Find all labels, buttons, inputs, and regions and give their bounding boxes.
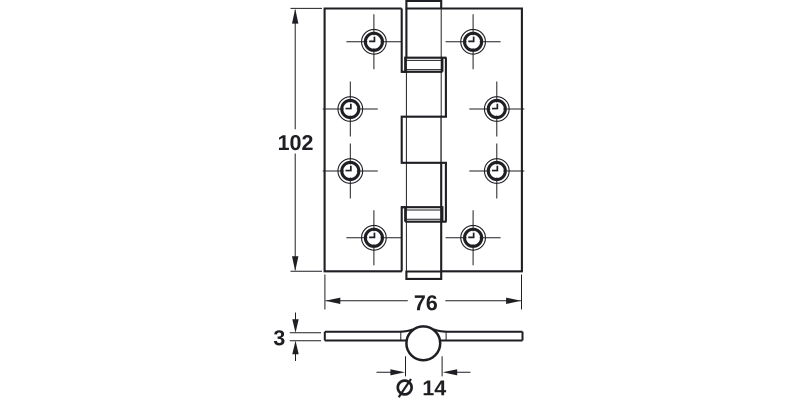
knuckle bottom cap xyxy=(406,272,441,279)
barrel right edge thin xyxy=(440,9,442,163)
dimension 102 extension lines xyxy=(291,8,323,271)
dimension diameter 14 arrow left-pointing xyxy=(443,369,458,375)
knuckle bottom cap base line xyxy=(405,270,442,272)
dimension 76 line xyxy=(326,300,521,302)
knuckle top cap base line xyxy=(405,7,442,9)
left leaf knuckle-side edge lower segment xyxy=(402,207,408,271)
diameter symbol circle xyxy=(398,381,412,395)
side view knuckle circle xyxy=(406,326,440,360)
side view knuckle edge ticks xyxy=(401,332,446,340)
right leaf outline xyxy=(441,9,522,272)
screw hole C xyxy=(323,144,378,199)
dimension 76 text xyxy=(415,295,437,310)
side view leaf bar top line xyxy=(325,329,413,331)
knuckle top cap xyxy=(406,1,441,9)
dimension 14 text xyxy=(424,381,446,396)
right leaf knuckle-side edge upper segment xyxy=(445,58,447,117)
dimension 102 text xyxy=(279,135,313,150)
middle knuckle box right edge xyxy=(440,117,442,163)
screw hole G xyxy=(469,144,524,199)
dimension 3 extension lines xyxy=(290,333,321,341)
screw hole E xyxy=(446,14,501,69)
dimension 76 arrow right xyxy=(506,298,521,304)
dimension diameter 14 arrow shafts xyxy=(377,371,471,373)
barrel left edge thick upper xyxy=(405,9,407,58)
dimension 3 text xyxy=(274,330,285,345)
dimension 102 arrow up xyxy=(292,9,298,24)
right leaf knuckle-side edge lower segment xyxy=(445,163,447,222)
dimension diameter 14 extension lines xyxy=(406,356,443,376)
dimension 76 extension lines xyxy=(325,275,522,310)
dimension 3 arrow down xyxy=(292,319,298,333)
dimension 76 arrow left xyxy=(325,298,340,304)
screw hole B xyxy=(323,82,378,137)
side view leaf bar bottom line xyxy=(325,340,523,342)
bearing collar 2 box xyxy=(402,207,447,222)
screw hole H xyxy=(446,210,501,265)
screw hole A xyxy=(346,14,401,69)
side view leaf bar top line right xyxy=(434,329,523,331)
dimension 3 arrow up xyxy=(292,341,298,355)
middle knuckle box xyxy=(402,117,447,163)
dimension 3 arrow shafts xyxy=(295,313,297,362)
barrel left edge thin xyxy=(405,58,407,272)
screw hole D xyxy=(346,210,401,265)
dimension diameter 14 arrow right-pointing xyxy=(390,369,405,375)
side view bar left end cap xyxy=(324,332,326,341)
dimension 102 arrow down xyxy=(292,256,298,271)
bearing collar 1 box xyxy=(402,58,447,72)
dimension 102 line xyxy=(294,10,296,270)
side view bar right end cap xyxy=(522,332,524,341)
diameter symbol slash xyxy=(399,379,411,397)
bearing collar 1 inner lines xyxy=(406,60,442,69)
bearing collar 2 inner lines xyxy=(406,210,442,219)
left leaf outline xyxy=(325,9,402,272)
screw hole F xyxy=(469,82,524,137)
barrel right edge thick lower xyxy=(440,163,442,271)
left leaf knuckle-side edge upper segment xyxy=(402,9,408,72)
